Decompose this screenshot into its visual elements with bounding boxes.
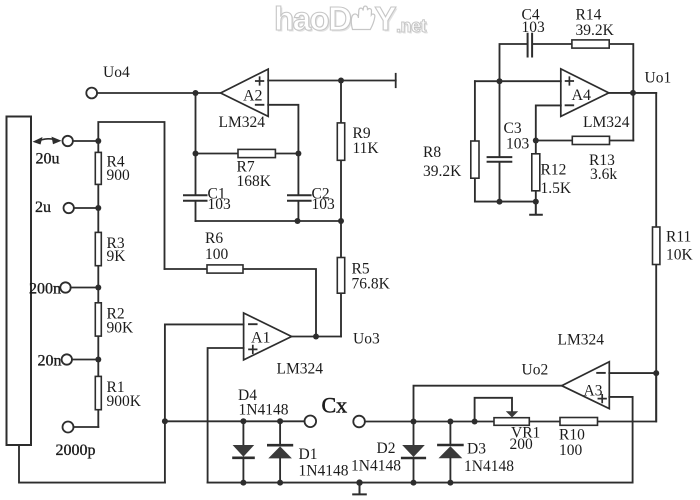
- terminal 2u: [63, 203, 73, 213]
- wire A4 ground rail: [475, 201, 536, 203]
- node D1 top junction: [277, 418, 283, 424]
- node 20n junction: [95, 357, 101, 363]
- resistor R9: [340, 81, 342, 222]
- node C3 top junction: [497, 78, 503, 84]
- svg-text:1.5K: 1.5K: [541, 180, 572, 197]
- svg-text:39.2K: 39.2K: [423, 163, 462, 180]
- svg-text:LM324: LM324: [583, 114, 630, 131]
- resistor R13: [536, 140, 634, 142]
- svg-text:20u: 20u: [36, 151, 60, 168]
- wire A1 plus input: [208, 348, 244, 483]
- wire to top bus: [98, 122, 164, 269]
- svg-text:A4: A4: [572, 87, 592, 104]
- node 200n junction: [95, 285, 101, 291]
- svg-text:Uo3: Uo3: [353, 331, 380, 348]
- svg-text:Cx: Cx: [322, 393, 348, 418]
- resistor R5: [340, 221, 342, 337]
- feedback top wire: [500, 44, 634, 141]
- svg-text:R6: R6: [205, 230, 223, 247]
- node R9 bottom junction: [338, 218, 344, 224]
- wire Uo4 to A2 output: [97, 92, 221, 94]
- svg-text:168K: 168K: [237, 173, 272, 190]
- resistor R14: [572, 40, 609, 48]
- resistor R6: [165, 269, 317, 337]
- wire A4 minus input: [536, 105, 561, 140]
- svg-text:R12: R12: [541, 162, 567, 179]
- node D2 bottom: [411, 480, 417, 486]
- svg-text:A3: A3: [584, 383, 603, 400]
- terminal Cx left: [305, 416, 317, 428]
- svg-text:900K: 900K: [107, 393, 142, 410]
- svg-text:103: 103: [312, 196, 336, 213]
- svg-text:103: 103: [506, 136, 530, 153]
- node D4 bottom: [240, 480, 246, 486]
- wire A2 minus input: [268, 105, 298, 195]
- svg-text:900: 900: [107, 167, 131, 184]
- wire Uo4 node down to C1: [195, 93, 197, 195]
- range select arrow: [38, 139, 58, 141]
- svg-text:LM324: LM324: [219, 114, 266, 131]
- node R9 top junction: [338, 78, 344, 84]
- node Uo1 junction: [630, 90, 636, 96]
- svg-text:1N4148: 1N4148: [239, 402, 289, 419]
- diode D4: [242, 421, 244, 445]
- node Uo3 junction: [313, 334, 319, 340]
- node 2u junction: [95, 205, 101, 211]
- svg-text:20n: 20n: [38, 353, 62, 370]
- svg-text:A1: A1: [251, 330, 271, 347]
- svg-text:R10: R10: [559, 427, 585, 444]
- resistor R12: [535, 141, 537, 202]
- node Uo4 junction: [193, 90, 199, 96]
- resistor R1: [97, 360, 99, 428]
- potentiometer VR1: [494, 418, 529, 426]
- svg-text:Uo4: Uo4: [103, 64, 130, 81]
- diode D1: [279, 421, 281, 444]
- node C2 bottom junction: [295, 218, 301, 224]
- resistor R10: [560, 418, 598, 426]
- svg-text:R11: R11: [666, 229, 691, 246]
- svg-text:haoD: haoD: [274, 0, 351, 37]
- svg-text:.net: .net: [396, 16, 427, 36]
- svg-text:C3: C3: [504, 120, 522, 137]
- svg-text:D2: D2: [377, 440, 396, 457]
- svg-text:200: 200: [510, 436, 534, 453]
- svg-text:D3: D3: [467, 441, 486, 458]
- svg-text:1N4148: 1N4148: [299, 463, 349, 480]
- wire A3 plus input: [609, 396, 632, 398]
- capacitor C2: [288, 195, 311, 201]
- ground: [353, 483, 366, 495]
- node 20u junction: [95, 138, 101, 144]
- terminal 20u: [62, 136, 72, 146]
- svg-text:1N4148: 1N4148: [464, 458, 514, 475]
- wire A4 plus line: [475, 80, 561, 82]
- resistor R4: [97, 141, 99, 208]
- diode D3: [449, 422, 451, 445]
- capacitor C1: [184, 195, 207, 201]
- terminal T-bar: [395, 74, 397, 87]
- resistor R11: [655, 93, 657, 422]
- node A3 minus junction: [653, 370, 659, 376]
- resistor R8: [474, 81, 476, 201]
- svg-text:D1: D1: [299, 446, 318, 463]
- switch body SW1: [7, 117, 32, 446]
- node VR1 wiper junction: [472, 419, 478, 425]
- node A3 out junction: [411, 419, 417, 425]
- node R12 top junction: [533, 138, 539, 144]
- terminal 200n: [60, 282, 70, 292]
- node ground junction: [356, 479, 362, 485]
- terminal Cx right: [353, 416, 365, 428]
- capacitor C3: [499, 81, 501, 157]
- ground A4: [530, 202, 542, 215]
- terminal 20n: [62, 354, 72, 364]
- diode D2: [413, 422, 415, 446]
- svg-text:39.2K: 39.2K: [576, 22, 615, 39]
- svg-text:LM324: LM324: [277, 361, 324, 378]
- svg-text:100: 100: [205, 246, 229, 263]
- svg-text:R8: R8: [423, 144, 441, 161]
- op-amp A2: [221, 69, 269, 116]
- svg-text:A2: A2: [243, 88, 263, 105]
- svg-text:9K: 9K: [107, 248, 127, 265]
- wire A4 output: [609, 92, 656, 94]
- svg-text:10K: 10K: [666, 247, 694, 264]
- svg-text:76.8K: 76.8K: [352, 276, 391, 293]
- svg-text:Uo2: Uo2: [522, 362, 549, 379]
- wire C bottom rail: [196, 220, 342, 222]
- wire A3 output: [414, 386, 562, 422]
- wire A1 minus input: [165, 324, 244, 482]
- resistor R3: [97, 208, 99, 288]
- op-amp A3: [562, 362, 610, 409]
- capacitor C4: [528, 34, 533, 57]
- op-amp A4: [561, 69, 609, 117]
- op-amp A1: [244, 313, 292, 360]
- node C3 bottom: [497, 199, 503, 205]
- svg-text:R14: R14: [576, 7, 602, 24]
- wire A3 minus input: [609, 372, 656, 374]
- resistor R2: [97, 288, 99, 360]
- svg-text:103: 103: [208, 196, 232, 213]
- wire A1 output Uo3: [292, 336, 341, 338]
- node D4 top junction: [240, 418, 246, 424]
- svg-text:90K: 90K: [107, 320, 135, 337]
- svg-text:2000p: 2000p: [56, 442, 96, 459]
- ground rail bottom right: [208, 397, 633, 483]
- node R7 right junction: [295, 151, 301, 157]
- svg-text:103: 103: [522, 19, 546, 36]
- svg-text:100: 100: [559, 442, 583, 459]
- node R7 left junction: [193, 151, 199, 157]
- svg-text:2u: 2u: [35, 199, 51, 216]
- svg-text:Uo1: Uo1: [645, 70, 672, 87]
- wire switch body to ground rail: [19, 445, 165, 483]
- node D3 top junction: [447, 419, 453, 425]
- svg-text:1N4148: 1N4148: [351, 458, 401, 475]
- svg-text:3.6k: 3.6k: [590, 166, 617, 183]
- terminal 2000p: [63, 422, 74, 433]
- node D1 bottom: [277, 480, 283, 486]
- wire Cx right rail: [365, 373, 656, 421]
- wire Cx left rail: [165, 420, 305, 422]
- node A1 minus rail junction: [162, 418, 168, 424]
- svg-text:LM324: LM324: [558, 332, 605, 349]
- terminal Uo4: [86, 88, 97, 99]
- node D3 bottom: [447, 480, 453, 486]
- svg-text:11K: 11K: [353, 140, 380, 157]
- resistor R7: [196, 153, 299, 155]
- wire: [73, 140, 98, 142]
- wire A2 plus input: [268, 80, 396, 82]
- svg-text:200n: 200n: [29, 281, 61, 298]
- watermark logo haoDIY.net: [274, 0, 428, 39]
- svg-text:Y: Y: [375, 0, 397, 37]
- node R12 bottom: [533, 199, 539, 205]
